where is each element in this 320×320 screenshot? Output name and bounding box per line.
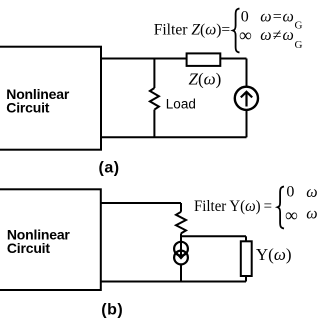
- svg-text:0: 0: [241, 9, 249, 26]
- svg-text:=: =: [273, 9, 282, 26]
- svg-text:ω: ω: [306, 206, 317, 223]
- svg-text:G: G: [295, 20, 303, 32]
- svg-text:≠: ≠: [273, 27, 282, 44]
- svg-text:∞: ∞: [239, 25, 252, 45]
- svg-text:ω: ω: [306, 184, 317, 201]
- svg-text:0: 0: [286, 184, 294, 201]
- svg-text:Load: Load: [166, 97, 196, 112]
- svg-text:ω: ω: [283, 9, 294, 26]
- svg-text:(b): (b): [101, 302, 123, 319]
- svg-text:ω: ω: [283, 27, 294, 44]
- svg-text:ω: ω: [260, 9, 271, 26]
- svg-text:Filter Z(ω)=: Filter Z(ω)=: [154, 22, 230, 39]
- svg-text:Circuit: Circuit: [7, 240, 50, 256]
- svg-text:ω: ω: [260, 27, 271, 44]
- svg-text:Filter Y(ω) =: Filter Y(ω) =: [194, 198, 272, 215]
- svg-text:Z(ω): Z(ω): [189, 70, 222, 89]
- svg-text:(a): (a): [99, 160, 120, 177]
- svg-text:G: G: [295, 39, 303, 51]
- svg-text:Y(ω): Y(ω): [256, 245, 292, 264]
- svg-text:Circuit: Circuit: [6, 99, 49, 115]
- svg-text:∞: ∞: [285, 205, 298, 225]
